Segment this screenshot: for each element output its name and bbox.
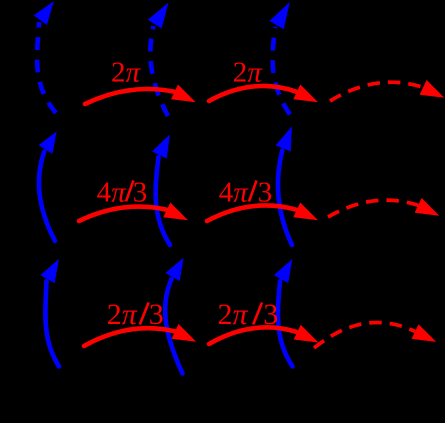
red arc row2 col1 to col2 (4pi/3 pulse) [79,203,188,222]
blue arrow col2 row2 [152,134,170,245]
red dashed arc row1 col3 to right [330,80,444,101]
red arc row2 col2 to col3 (4pi/3 pulse) [207,203,318,222]
svg-text:4π: 4π [97,177,128,209]
svg-text:3: 3 [258,177,273,209]
red arc row3 col1 to col2 (2pi/3 pulse) [84,324,196,346]
svg-text:3: 3 [149,298,164,331]
svg-text:3: 3 [263,298,278,331]
blue arrow col3 row2 [276,126,293,245]
blue arrow col2 row3 [165,258,183,374]
blue arrow col1 row2 [39,131,57,241]
label 4pi/3 (row2 left) [97,177,148,209]
blue arrow col1 row3 [40,259,59,367]
red dashed arc row3 col3 to right [314,322,436,348]
svg-text:2π: 2π [218,298,249,331]
label 4pi/3 (row2 middle) [219,177,273,209]
svg-text:2π: 2π [107,298,138,331]
svg-text:4π: 4π [219,177,250,209]
red arc row3 col2 to col3 (2pi/3 pulse) [209,325,318,344]
blue dashed arrow col2 row1 (to continuum) [148,3,169,117]
blue arrow col3 row3 [274,259,293,367]
red arc row1 col1 to col2 (2pi pulse) [85,85,196,105]
red dashed arc row2 col3 to right [328,198,439,217]
svg-text:2π: 2π [233,57,264,89]
label 2pi/3 (row3 middle) [218,298,279,331]
red arc row1 col2 to col3 (2pi pulse) [209,85,318,103]
svg-text:2π: 2π [111,57,142,89]
label 2pi/3 (row3 left) [107,298,164,331]
svg-text:3: 3 [133,177,148,209]
blue dashed arrow col1 row1 (to continuum) [34,1,56,113]
blue dashed arrow col3 row1 (to continuum) [270,2,291,115]
